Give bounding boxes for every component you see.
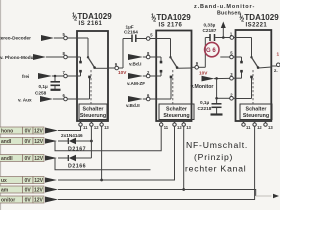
- svg-text:11: 11: [164, 125, 169, 130]
- svg-text:z.: z.: [274, 68, 278, 73]
- svg-text:C2218: C2218: [198, 106, 212, 111]
- svg-text:0V: 0V: [25, 178, 32, 184]
- svg-text:G 6: G 6: [206, 48, 216, 54]
- svg-text:Steuerung: Steuerung: [163, 113, 189, 119]
- svg-text:0V: 0V: [25, 139, 32, 145]
- svg-text:1: 1: [277, 52, 280, 57]
- svg-text:2x1N4146: 2x1N4146: [61, 133, 83, 138]
- svg-text:12: 12: [257, 125, 262, 130]
- svg-text:13: 13: [268, 125, 273, 130]
- svg-text:12V: 12V: [34, 139, 44, 145]
- svg-text:10V: 10V: [118, 70, 127, 75]
- svg-text:Steuerung: Steuerung: [243, 113, 269, 119]
- svg-text:0V: 0V: [25, 129, 32, 135]
- svg-text:0V: 0V: [25, 198, 32, 204]
- svg-text:andII: andII: [1, 156, 13, 162]
- svg-text:v.Bd.II: v.Bd.II: [126, 103, 140, 108]
- svg-text:rechter Kanal: rechter Kanal: [185, 164, 247, 174]
- svg-text:z.Band-u.Monitor-: z.Band-u.Monitor-: [194, 4, 255, 10]
- svg-text:IS2221: IS2221: [246, 23, 268, 29]
- svg-text:Buchsen: Buchsen: [217, 11, 241, 17]
- svg-text:13: 13: [104, 125, 109, 130]
- svg-text:13: 13: [186, 125, 191, 130]
- svg-text:andI: andI: [1, 139, 12, 145]
- svg-text:IS 2176: IS 2176: [159, 23, 183, 29]
- svg-text:(Prinzip): (Prinzip): [194, 152, 233, 162]
- svg-text:D2166: D2166: [68, 164, 86, 170]
- svg-text:Schalter: Schalter: [246, 107, 267, 113]
- svg-text:12V: 12V: [34, 178, 44, 184]
- svg-text:C2164: C2164: [124, 30, 138, 35]
- svg-text:10V: 10V: [199, 70, 208, 75]
- svg-text:v.AM-ZF: v.AM-ZF: [127, 81, 145, 86]
- svg-text:v. Aux: v. Aux: [18, 98, 32, 103]
- svg-text:12: 12: [94, 125, 99, 130]
- svg-text:12V: 12V: [34, 198, 44, 204]
- svg-text:D2167: D2167: [68, 147, 86, 153]
- svg-text:C2187: C2187: [203, 28, 217, 33]
- svg-text:0V: 0V: [25, 188, 32, 194]
- svg-text:0,1µ: 0,1µ: [39, 84, 49, 89]
- svg-text:hono: hono: [1, 129, 13, 135]
- svg-text:v.Monitor: v.Monitor: [191, 84, 214, 90]
- svg-text:v.Bd.I: v.Bd.I: [129, 62, 141, 67]
- svg-text:onitor: onitor: [1, 198, 15, 204]
- svg-text:NF-Umschalt.: NF-Umschalt.: [186, 140, 248, 150]
- svg-text:v. Phono-Modul: v. Phono-Modul: [0, 55, 35, 60]
- svg-text:Schalter: Schalter: [166, 107, 187, 113]
- svg-text:Stereo-Decoder: Stereo-Decoder: [0, 36, 31, 41]
- svg-text:frei: frei: [22, 74, 29, 79]
- svg-text:Schalter: Schalter: [83, 107, 104, 113]
- svg-text:0V: 0V: [25, 156, 32, 162]
- svg-text:C258: C258: [35, 91, 47, 96]
- svg-text:ux: ux: [1, 178, 7, 184]
- svg-text:12V: 12V: [34, 156, 44, 162]
- svg-text:Steuerung: Steuerung: [80, 113, 106, 119]
- svg-text:11: 11: [246, 125, 251, 130]
- svg-text:IS 2161: IS 2161: [79, 21, 103, 27]
- svg-text:0,1µ: 0,1µ: [200, 100, 210, 105]
- svg-text:am: am: [1, 188, 9, 194]
- svg-text:12: 12: [177, 125, 182, 130]
- svg-text:11: 11: [83, 125, 88, 130]
- svg-text:12V: 12V: [34, 188, 44, 194]
- svg-text:12V: 12V: [34, 129, 44, 135]
- svg-text:0,33µ: 0,33µ: [204, 23, 216, 28]
